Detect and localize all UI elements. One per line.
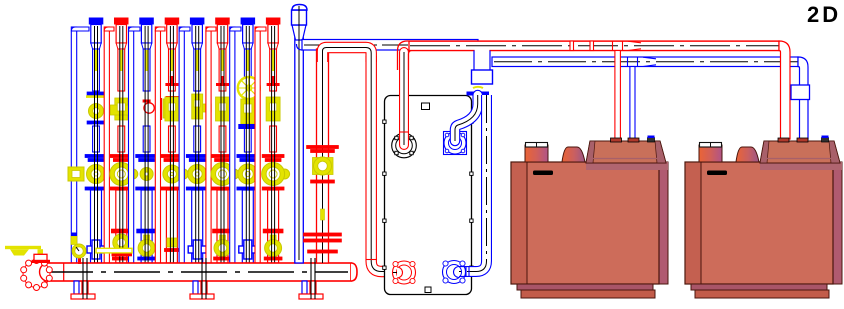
- circulator pump on riser 6: [211, 154, 239, 190]
- red run elbow down to HX top port: [399, 52, 409, 145]
- air separator vent pipe: [292, 5, 308, 264]
- ball valve low on riser 3: [137, 229, 157, 260]
- boiler 2 cone vent: [736, 147, 759, 162]
- supply header pipe: [40, 263, 357, 281]
- circulator pump on riser 1: [68, 154, 107, 190]
- boiler top pipe stubs: [778, 136, 829, 143]
- riser station 4 pipe (#ff0000): [155, 18, 179, 264]
- handwheel valve on riser 7: [238, 77, 260, 129]
- riser station 8 pipe (#ff0000): [255, 18, 280, 264]
- header end flange disc: [21, 258, 53, 291]
- HX top-left port: [392, 133, 417, 158]
- riser 2 centerlines: [120, 26, 123, 281]
- blue return run to boilers: [492, 57, 804, 67]
- header support leg: [190, 258, 214, 299]
- boiler 2 top tray: [760, 141, 842, 170]
- pressure gauge on header: [72, 244, 86, 264]
- wedge valve on riser 2: [110, 98, 132, 120]
- riser station 7 pipe (#0000ff): [230, 18, 255, 264]
- HX bottom-left port flange: [393, 261, 416, 284]
- HX top-right port plate: [444, 132, 467, 155]
- pump on boiler-loop riser: [307, 145, 339, 183]
- blue drop to boiler 2: [791, 57, 810, 139]
- gate valve on riser 6: [216, 76, 230, 121]
- riser 8 centerlines: [272, 26, 275, 281]
- ball valve low on riser 6: [213, 229, 233, 260]
- circulator pump on riser 5: [186, 154, 208, 190]
- gate valve on riser 4: [165, 76, 179, 121]
- gate valve on riser 8: [266, 76, 280, 121]
- 2D label: [807, 2, 841, 27]
- riser station 6 pipe (#ff0000): [206, 18, 230, 264]
- riser 6 centerlines: [221, 26, 224, 281]
- boiler 2 logo plate: [707, 171, 727, 176]
- blue S-pipe into HX top-right port: [455, 95, 478, 141]
- red arch pump riser to HX: [323, 48, 372, 63]
- riser 4 centerlines: [170, 26, 173, 281]
- plate heat exchanger body: [383, 96, 473, 295]
- circulator pump on riser 4: [161, 154, 189, 190]
- boiler top pipe stubs: [611, 136, 655, 143]
- blue return run upper-left: [297, 40, 479, 51]
- ball valve low on riser 8: [263, 229, 283, 260]
- ball valve low on riser 2: [111, 229, 131, 260]
- boiler 1 cone vent: [562, 147, 585, 162]
- riser station 3 pipe (#0000ff): [129, 18, 154, 264]
- svg-text:2D: 2D: [807, 2, 841, 27]
- boiler 2 base plinth: [691, 284, 829, 298]
- circulator pump on riser 3: [136, 154, 158, 190]
- blue downpipe from runs to HX: [467, 49, 493, 96]
- red drop to boiler 2: [779, 41, 790, 139]
- horizontal strainer between risers 3-4: [143, 96, 185, 121]
- circulator pump on riser 7: [237, 154, 259, 190]
- boiler-loop pump riser pipe: [317, 49, 329, 263]
- blue pipe down right side of HX: [458, 95, 487, 277]
- HX bottom-right port flange: [443, 261, 466, 284]
- header support leg: [71, 258, 95, 299]
- small valve low on riser 4: [164, 238, 179, 252]
- boiler 1 flue cylinder: [525, 143, 548, 163]
- flange stack on boiler-loop riser: [304, 209, 342, 253]
- circulator pump on riser 2: [110, 154, 138, 190]
- riser station 5 pipe (#0000ff): [179, 18, 204, 264]
- main lever valve on header: [5, 246, 50, 263]
- riser station 1 pipe (#0000ff): [71, 18, 103, 264]
- red pipe down to HX bottom port: [366, 56, 400, 277]
- riser 1 centerlines: [95, 26, 98, 281]
- riser 7 centerlines: [246, 26, 249, 281]
- riser 3 centerlines: [145, 26, 148, 281]
- boiler 1 logo plate: [533, 171, 553, 176]
- red supply run to boilers: [398, 41, 787, 70]
- cross fitting low on riser 5: [188, 240, 206, 259]
- angle valve on riser 5: [192, 94, 212, 119]
- boiler 1 body: [511, 162, 668, 284]
- globe valve on riser 1: [86, 92, 106, 124]
- cross fitting low on riser 7: [239, 240, 257, 259]
- blue drop to boiler 1: [628, 57, 657, 139]
- riser station 2 pipe (#ff0000): [104, 18, 128, 264]
- header support leg: [299, 258, 323, 299]
- circulator pump on riser 8: [262, 154, 290, 190]
- boiler 2 flue cylinder: [699, 143, 722, 163]
- boiler 1 top tray: [586, 141, 668, 170]
- cross fitting low on riser 1: [87, 240, 105, 259]
- riser 5 centerlines: [196, 26, 199, 281]
- red drop to boiler 1: [613, 41, 642, 139]
- yellow arm S1-S2 and companion fitting: [71, 233, 132, 257]
- boiler 1 base plinth: [517, 284, 655, 298]
- boiler 2 body: [685, 162, 842, 284]
